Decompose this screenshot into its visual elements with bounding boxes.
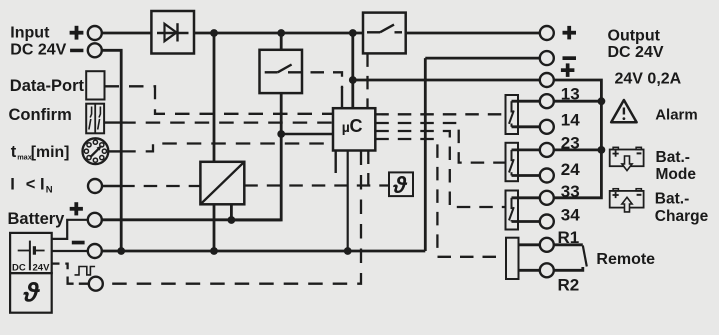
relay K3 box [506,191,519,230]
terminal circle 13 [540,94,554,108]
terminal circle pulse [89,277,103,291]
svg-text:R1: R1 [558,228,580,247]
wire dashed uC to relay K1 [375,113,505,115]
wire dashed Data-Port to uC [105,86,334,114]
terminal circle input plus [88,26,102,40]
symbol battery plus [70,202,83,215]
wire dashed uC to remote box [375,139,506,257]
wire dashed uC to relay K3 [375,131,505,207]
node DCDC to bottom bus [210,247,218,255]
symbol input plus [70,26,84,40]
wire battery minus to box [52,250,88,252]
svg-text:Charge: Charge [655,208,709,225]
relay K1 contact [511,101,513,112]
svg-text:C: C [350,116,363,136]
wire remote to R1 [519,243,540,246]
wire K2 to 24 [512,174,540,177]
wire dashed I less In to DCDC [121,185,200,187]
wire dashed tmax to uC [121,144,333,152]
wire rotary stub [109,150,122,152]
wire uC bottom pin to bus [347,151,349,252]
terminal circle output plus aux [540,73,554,87]
wire I less In stub [102,185,121,187]
wire R1 to remote switch [554,243,583,246]
svg-text:24V 0,2A: 24V 0,2A [615,70,682,87]
svg-text:33: 33 [561,182,580,201]
relay K2 contact [511,150,513,161]
terminal circle I less In [88,179,102,193]
dashed control wires [52,53,506,283]
rotary switch tmax [83,138,109,164]
wire junction down to switch S1 [280,33,283,50]
svg-text:ϑ: ϑ [392,172,408,198]
battery box [10,233,52,273]
symbol output minus [563,56,577,60]
battery cell symbol [18,250,29,252]
node collector 23 [598,146,606,154]
terminal circle 14 [540,120,554,134]
symbol output plus second [561,63,575,77]
terminal circle output plus top [540,26,554,40]
svg-text:Mode: Mode [656,166,697,183]
wire diode to switch S2 [194,32,363,35]
svg-text:DC 24V: DC 24V [10,42,66,59]
wire K2 to 23 [512,148,540,151]
wire second output plus [353,79,540,82]
wire input plus to diode [102,32,152,35]
node bus junction at x353 [349,29,357,37]
node minus bus to bottom bus [117,247,125,255]
wire remote to R2 [519,269,540,272]
uC U1 box [333,108,375,150]
wire bottom minus bus [102,250,426,253]
diode D1 symbol [157,32,189,34]
wire dashed S2 bottom to uC top [366,53,368,108]
symbol output plus top [563,26,577,40]
thermal sensor box [389,172,413,196]
node battery plus to DCDC [228,216,236,224]
wire DCDC bottom pin [230,204,233,220]
svg-text:DC: DC [12,262,26,273]
terminal circle output minus [540,51,554,65]
terminal circle R2 [540,263,554,277]
svg-text:Output: Output [608,28,661,45]
svg-text:23: 23 [561,134,580,153]
wire DCDC bottom to bus [213,204,216,251]
wire input minus corner [102,50,121,251]
svg-text:ϑ: ϑ [23,278,41,308]
svg-text:Battery: Battery [8,210,66,228]
remote switch blade [583,246,587,267]
node switch S1 top junction [277,29,285,37]
terminal circle R1 [540,238,554,252]
wire dashed uC to relay K2 [375,123,505,163]
terminal circle 33 [540,191,554,205]
battery thermal box [10,273,52,313]
wire uC bottom stub pin [335,151,337,174]
svg-text:DC 24V: DC 24V [608,44,664,61]
svg-text:Bat.-: Bat.- [655,190,689,207]
relay K1 box [506,95,519,134]
wire uC top pin stub [341,87,343,108]
svg-text:Input: Input [10,24,50,41]
svg-text:Remote: Remote [596,251,655,268]
terminal circle battery plus [88,213,102,227]
wire pulse stub [79,283,89,285]
diode D1 box [151,11,194,54]
symbol battery minus [72,241,85,245]
node second plus tap [349,76,357,84]
rotary arrow [90,149,99,158]
node S1 line to uC pin [277,130,285,138]
svg-text:24V: 24V [33,262,51,273]
wire dashed S1 blade to uC top [288,72,342,88]
svg-text:34: 34 [561,205,580,224]
pulse waveform symbol [75,267,96,275]
DC/DC converter diagonal [200,162,244,205]
terminal circle 24 [540,169,554,183]
Confirm button symbols [90,107,91,118]
remote opto box [506,238,519,279]
switch S2 contact [367,31,380,33]
switch S1 contact [265,71,278,73]
terminal circle 23 [540,143,554,157]
relay K2 box [506,143,519,181]
terminal circle input minus [88,43,102,57]
wire switch S2 to output plus [406,32,540,35]
Confirm box [86,104,104,134]
svg-text:24: 24 [561,160,580,179]
wire K3 to 33 [512,196,540,199]
wire output minus [425,57,540,60]
wire dashed battery box to pulse [52,262,60,264]
wire dashed uC pin to thermal line [367,151,369,186]
svg-text:R2: R2 [558,275,580,294]
symbol input minus [70,49,83,53]
Data-Port box [86,71,104,99]
battery mode icon [610,147,644,170]
wire switch S1 bottom down [231,93,281,220]
node uC pin to bottom bus [344,247,352,255]
DC/DC converter U2 box [200,162,244,205]
svg-text:Bat.-: Bat.- [656,149,690,166]
wire bus x353 down to uC [351,33,354,108]
svg-text:14: 14 [561,111,580,130]
svg-text:Alarm: Alarm [655,106,698,123]
node collector 13 [598,97,606,105]
wire junction down to DCDC top [213,33,216,162]
wire Confirm stub [104,121,121,123]
wire battery plus rail [102,218,282,221]
svg-text:Data-Port: Data-Port [10,77,85,95]
wire uC solid left pin from S1 net [281,133,333,135]
wire dashed uC pin to pulse terminal [103,151,361,284]
relay K3 contact [511,198,513,209]
svg-text:Confirm: Confirm [9,106,72,124]
wire 23 to collector [554,148,602,151]
wire collector from plus2 to relays [554,80,602,198]
battery charge icon [610,189,644,212]
wire K1 to 14 [512,125,540,128]
wire dashed Confirm to uC [121,121,333,123]
alarm warning triangle [611,100,636,122]
switch S1 box [260,50,303,93]
node diode output junction [210,29,218,37]
terminal circle battery minus [88,244,102,258]
wire minus riser to output [424,58,427,251]
terminal circle 34 [540,215,554,229]
wire R2 to remote switch [554,267,583,270]
wire K3 to 34 [512,220,540,223]
svg-text:13: 13 [561,85,580,104]
wire K1 to 13 [512,100,540,103]
wire battery plus to box [52,220,88,239]
wire dashed DCDC to thermal box [244,184,389,186]
switch S2 box [363,13,406,54]
wire 13 to collector [554,100,602,103]
